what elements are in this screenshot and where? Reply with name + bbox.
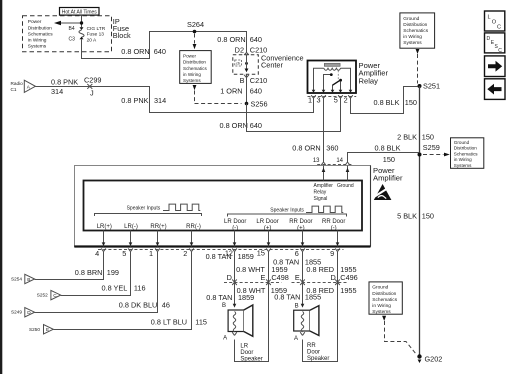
svg-text:J: J (90, 88, 94, 97)
nav button LOC (485, 11, 505, 31)
svg-text:Systems: Systems (454, 163, 472, 168)
svg-text:640: 640 (250, 121, 262, 130)
svg-text:46: 46 (162, 301, 170, 310)
node S259 (418, 143, 440, 156)
power amplifier relay box (308, 61, 357, 94)
svg-text:LR: LR (240, 343, 248, 349)
label 0.8 RED 1955 (pin 9 upper) (306, 265, 356, 274)
svg-text:E: E (261, 273, 266, 282)
wire relay pin 2 to S251 (351, 87, 418, 114)
svg-text:C1: C1 (11, 87, 17, 92)
label 0.8 TAN 1859 (pin 12 lower) (206, 293, 254, 302)
svg-text:Radio: Radio (11, 81, 24, 86)
dashed reference box to S256 (193, 85, 242, 104)
dashed reference to G202 (382, 316, 416, 355)
door connector dashed rows (224, 282, 349, 284)
svg-text:1855: 1855 (305, 292, 321, 301)
svg-text:2 BLK: 2 BLK (397, 133, 417, 142)
dashed reference S259 to ground distribution box (423, 153, 450, 157)
svg-text:199: 199 (107, 268, 119, 277)
svg-text:640: 640 (250, 87, 262, 96)
bracket (right group) (228, 214, 347, 217)
svg-text:E: E (46, 327, 49, 332)
pin B C210 (240, 74, 268, 85)
svg-text:S251: S251 (423, 82, 440, 91)
svg-text:150: 150 (383, 155, 395, 164)
svg-text:D: D (331, 273, 336, 282)
svg-text:0.8 PNK: 0.8 PNK (121, 96, 148, 105)
LR speaker terminal B (222, 303, 236, 309)
svg-text:Systems: Systems (183, 78, 201, 83)
wire amp pin 6 to RR speaker B (302, 252, 304, 307)
svg-text:1 ORN: 1 ORN (220, 87, 242, 96)
label 0.8 ORN 640 (C210 feed) (217, 35, 262, 44)
svg-text:C299: C299 (84, 76, 101, 85)
label 2 BLK 150 (397, 133, 434, 142)
power distribution schematics reference box (middle) (180, 51, 212, 84)
amp bottom connector dashed row (98, 249, 344, 251)
RR door speaker symbol (294, 306, 319, 336)
svg-text:S252: S252 (37, 292, 48, 297)
Hot At All Times label box (60, 8, 100, 16)
square wave symbol (left) (163, 204, 200, 210)
svg-text:0.8 BLK: 0.8 BLK (375, 143, 401, 152)
svg-text:(-): (-) (232, 225, 238, 231)
svg-text:2: 2 (344, 96, 348, 105)
svg-text:1859: 1859 (238, 293, 254, 302)
svg-text:Signal: Signal (314, 196, 328, 202)
node S256 (245, 100, 268, 109)
svg-text:B: B (222, 303, 226, 309)
svg-text:C210: C210 (250, 76, 267, 85)
svg-text:Block: Block (113, 31, 131, 40)
power amplifier inner box (84, 181, 363, 231)
RR speaker terminal B (295, 303, 305, 309)
door channel labels (224, 219, 345, 231)
svg-text:115: 115 (195, 318, 207, 327)
svg-text:Distribution: Distribution (403, 22, 427, 28)
svg-text:D: D (227, 273, 232, 282)
svg-text:314: 314 (154, 96, 166, 105)
svg-text:6: 6 (295, 249, 299, 258)
amp top connector stubs pins 13 14 (313, 158, 353, 165)
relay pin arrows at box bottom (312, 90, 353, 93)
svg-text:Fuse 13: Fuse 13 (87, 32, 105, 38)
svg-text:5: 5 (122, 249, 126, 258)
relay label (359, 61, 389, 86)
svg-text:Ground: Ground (454, 140, 470, 145)
svg-text:4: 4 (95, 249, 99, 258)
relay connector dashed row (308, 96, 357, 98)
svg-text:0.8 TAN: 0.8 TAN (206, 293, 232, 302)
svg-text:S249: S249 (11, 310, 22, 315)
svg-text:B: B (295, 303, 299, 309)
relay pin numbers 1 3 5 2 (308, 96, 348, 105)
svg-text:Distribution: Distribution (28, 25, 52, 31)
IP fuse block dashed outline (23, 16, 112, 52)
relay switch arm and pivot (333, 79, 343, 91)
svg-text:2: 2 (183, 249, 187, 258)
svg-text:150: 150 (405, 98, 417, 107)
label 0.8 TAN 1855 (pin 6 lower) (274, 292, 321, 301)
svg-text:1: 1 (308, 96, 312, 105)
svg-text:Distribution: Distribution (454, 146, 477, 151)
svg-text:in Wiring: in Wiring (28, 38, 47, 44)
svg-text:CIG LTR: CIG LTR (87, 26, 106, 32)
svg-text:0.8 TAN: 0.8 TAN (206, 252, 232, 261)
svg-text:0.8 LT BLU: 0.8 LT BLU (151, 318, 187, 327)
svg-text:Power: Power (28, 19, 42, 25)
wire amp pin 9 to RR speaker A (303, 252, 338, 362)
IP Fuse Block label (113, 17, 131, 40)
svg-text:Systems: Systems (403, 40, 422, 46)
svg-text:Schematics: Schematics (183, 66, 207, 71)
svg-text:14: 14 (336, 158, 343, 164)
svg-text:S259: S259 (423, 143, 440, 152)
svg-text:360: 360 (326, 144, 338, 153)
bracket (left group) (95, 214, 202, 217)
node S264 (187, 20, 204, 34)
svg-text:0.8 BRN: 0.8 BRN (75, 268, 103, 277)
connector triangle S250 E (29, 325, 53, 334)
svg-text:L: L (488, 15, 491, 21)
convenience center label (261, 54, 304, 70)
svg-text:Relay: Relay (359, 76, 379, 85)
svg-text:C: C (497, 24, 501, 30)
arrow to reference text (54, 21, 83, 25)
dashed reference S264 to power distribution box (193, 34, 197, 50)
label D2 C210 (235, 45, 268, 55)
connector triangle S254 B (11, 274, 35, 283)
svg-text:in Wiring: in Wiring (403, 34, 422, 40)
svg-text:in Wiring: in Wiring (372, 303, 391, 309)
svg-text:Ground: Ground (372, 285, 388, 291)
label 0.8 ORN 360 (292, 144, 338, 153)
svg-text:20 A: 20 A (87, 37, 97, 43)
svg-text:LR Door: LR Door (224, 219, 246, 225)
svg-text:Distribution: Distribution (372, 291, 396, 297)
svg-text:150: 150 (422, 133, 434, 142)
svg-text:5: 5 (334, 96, 338, 105)
label 0.8 RED 1955 (pin 9 lower) (306, 286, 356, 295)
svg-text:B: B (240, 76, 245, 85)
svg-text:15: 15 (257, 248, 265, 257)
svg-text:Schematics: Schematics (454, 151, 478, 156)
svg-text:(+): (+) (297, 225, 305, 231)
svg-text:150: 150 (422, 212, 434, 221)
svg-text:B: B (27, 277, 30, 282)
power distribution reference text (in fuse block) (28, 19, 53, 49)
wire S254 to amp pin 4 (35, 252, 104, 280)
svg-text:1955: 1955 (340, 286, 356, 295)
svg-text:D2: D2 (235, 45, 244, 54)
wire S250 to amp pin 2 (53, 252, 191, 330)
ground distribution reference box (bottom) (369, 282, 402, 315)
door connector row labels D E C498 E D C496 (227, 273, 358, 282)
radio label (11, 81, 24, 92)
label 0.8 ORN 640 (fuse output) (121, 47, 166, 56)
svg-text:Hot At All Times: Hot At All Times (62, 9, 98, 15)
wire relay pin 3 to amp pin 13 (0.8 ORN 360) (323, 98, 325, 161)
inline connector marks on door wires (232, 279, 340, 285)
fuse value label CIG LTR Fuse 13 20 A (87, 26, 106, 44)
wire amp pin 14 to S259 (348, 153, 420, 162)
main ground wire S251 to G202 (419, 86, 421, 356)
svg-text:Schematics: Schematics (403, 28, 428, 34)
svg-text:Speaker: Speaker (240, 357, 262, 363)
label 0.8 YEL 116 (102, 284, 146, 293)
ground distribution reference box (top right) (400, 13, 435, 48)
square wave symbol (right) (306, 206, 343, 212)
svg-text:RR(-): RR(-) (186, 224, 201, 230)
svg-text:RR Door: RR Door (322, 219, 345, 225)
fuse element F13 (79, 30, 84, 37)
svg-text:S254: S254 (11, 276, 22, 281)
svg-text:0.8 YEL: 0.8 YEL (102, 284, 128, 293)
svg-text:314: 314 (51, 87, 63, 96)
relay pin stubs with forks (311, 95, 353, 99)
wire C210 to S256 (246, 78, 248, 104)
svg-text:Systems: Systems (372, 309, 391, 315)
svg-text:C3: C3 (69, 37, 76, 43)
svg-text:Speaker Inputs: Speaker Inputs (127, 205, 161, 211)
RR speaker terminal A (294, 332, 305, 342)
svg-text:S264: S264 (187, 20, 204, 29)
svg-text:(-): (-) (331, 225, 337, 231)
svg-text:0.8 PNK: 0.8 PNK (51, 77, 78, 86)
svg-text:LR Door: LR Door (256, 219, 278, 225)
wire radio PNK to relay pin 1 (35, 87, 313, 113)
pin B4 (69, 26, 84, 32)
svg-text:Schematics: Schematics (28, 31, 53, 37)
svg-text:0.8 DK BLU: 0.8 DK BLU (119, 301, 158, 310)
svg-text:S256: S256 (251, 100, 268, 109)
relay coil (324, 63, 341, 70)
label 0.8 ORN 640 (S256 vertical) (220, 121, 262, 130)
svg-text:0.8 ORN: 0.8 ORN (121, 47, 149, 56)
label 0.8 BLK 150 (relay ground) (374, 98, 417, 107)
power amplifier outer box (74, 166, 370, 247)
svg-text:116: 116 (134, 284, 146, 293)
svg-text:C496: C496 (340, 273, 357, 282)
label 0.8 WHT 1959 (pin 15 lower) (237, 286, 287, 295)
svg-text:Ground: Ground (403, 16, 419, 22)
svg-text:Speaker Inputs: Speaker Inputs (270, 207, 304, 213)
svg-text:Distribution: Distribution (183, 60, 206, 65)
svg-text:0.8 ORN: 0.8 ORN (292, 144, 320, 153)
svg-text:5 BLK: 5 BLK (397, 212, 417, 221)
ESD warning symbol (374, 184, 392, 200)
ground distribution reference box (right) (451, 138, 484, 169)
svg-text:0.8 TAN: 0.8 TAN (274, 292, 300, 301)
amp bottom pin stubs (101, 248, 340, 251)
svg-text:RR: RR (307, 343, 316, 349)
pin C3 (69, 37, 84, 43)
label 1 ORN 640 (220, 87, 262, 96)
amp internal wires pins 13 14 with arrows (322, 166, 350, 181)
relay actuator dashed link (337, 71, 339, 80)
svg-text:C498: C498 (271, 273, 288, 282)
wire S252 to amp pin 5 (61, 252, 131, 296)
label 0.8 TAN 1855 (pin 6 upper) (273, 258, 321, 267)
svg-text:13: 13 (313, 158, 320, 164)
relay fixed contact (pin 3) (324, 73, 333, 90)
label 0.8 DK BLU 46 (119, 301, 170, 310)
svg-text:640: 640 (154, 47, 166, 56)
wire amp pin 12 to LR speaker B (234, 252, 236, 307)
svg-text:in Wiring: in Wiring (454, 157, 472, 162)
svg-text:Relay: Relay (314, 189, 327, 195)
svg-text:0.8 ORN: 0.8 ORN (220, 121, 248, 130)
convenience center dashed box (233, 55, 258, 75)
svg-text:Center: Center (261, 61, 283, 70)
label 0.8 WHT 1959 (pin 15 upper) (236, 265, 288, 274)
wire amp pin 15 to LR speaker A (235, 252, 269, 362)
svg-text:Ground: Ground (337, 183, 354, 189)
page left border (0, 0, 2, 374)
svg-text:1: 1 (149, 249, 153, 258)
svg-text:3: 3 (316, 96, 320, 105)
svg-text:RR(+): RR(+) (150, 224, 166, 230)
svg-text:0.8 BLK: 0.8 BLK (374, 98, 400, 107)
svg-text:Door: Door (307, 350, 320, 356)
dashed reference to S251 (416, 49, 420, 84)
svg-text:C: C (498, 48, 502, 54)
svg-text:Door: Door (240, 350, 253, 356)
svg-text:A: A (294, 336, 298, 342)
node S251 (418, 82, 441, 91)
nav button left arrow (485, 79, 506, 100)
svg-text:Amplifier: Amplifier (314, 183, 334, 189)
svg-text:E: E (295, 273, 300, 282)
svg-text:0.8 ORN: 0.8 ORN (217, 35, 245, 44)
svg-text:(+): (+) (264, 225, 272, 231)
label 0.8 TAN 1859 (pin 12 upper) (206, 252, 254, 261)
radio connector triangle A (24, 80, 35, 92)
connector triangle S249 D (11, 308, 35, 317)
RR door speaker label (307, 343, 329, 362)
svg-text:S250: S250 (29, 327, 40, 332)
wire S256 to relay pin 5 (247, 98, 341, 131)
nav button right arrow (485, 56, 506, 77)
svg-text:cb: cb (236, 62, 240, 66)
LR speaker terminal A (223, 332, 237, 341)
label 0.8 BRN 199 (75, 268, 119, 277)
nav button DESC (485, 33, 505, 54)
amp pin numbers (95, 248, 334, 258)
svg-text:640: 640 (250, 35, 262, 44)
relay coil leads to pins 1 and 2 (314, 68, 351, 90)
svg-text:Schematics: Schematics (372, 297, 397, 303)
label 0.8 LT BLU 115 (151, 318, 207, 327)
label 5 BLK 150 (397, 212, 434, 221)
label 0.8 PNK 314 (vertical run) (121, 96, 166, 105)
wire fuse output to S264 corner run (82, 32, 247, 59)
amp internal output drops with arrows (102, 231, 340, 247)
connector triangle S252 C (37, 290, 61, 299)
svg-text:RR Door: RR Door (289, 219, 312, 225)
label amplifier relay signal (314, 183, 334, 202)
svg-text:B4: B4 (69, 26, 75, 32)
wire from Hot At All Times into fuse (81, 15, 83, 27)
svg-text:LR(+): LR(+) (97, 224, 112, 230)
channel labels LR RR (97, 224, 201, 230)
LR door speaker symbol (228, 305, 253, 336)
svg-text:9: 9 (330, 249, 334, 258)
ground G202 (417, 354, 442, 363)
svg-text:Systems: Systems (28, 44, 47, 50)
svg-text:Power: Power (183, 54, 196, 59)
svg-text:LR(-): LR(-) (124, 224, 138, 230)
svg-text:in Wiring: in Wiring (183, 72, 201, 77)
svg-text:Amplifier: Amplifier (373, 174, 403, 183)
svg-text:G202: G202 (425, 354, 443, 363)
svg-text:A: A (223, 335, 227, 341)
power amplifier label (373, 166, 403, 183)
connector C299 pin J (84, 76, 101, 98)
wire S249 to amp pin 1 (35, 252, 158, 313)
label 0.8 PNK 314 (radio side) (51, 77, 78, 96)
svg-text:1859: 1859 (238, 252, 254, 261)
LR door speaker label (240, 343, 262, 362)
svg-text:Speaker: Speaker (307, 356, 329, 362)
label 0.8 BLK 150 (amp ground) (375, 143, 401, 163)
